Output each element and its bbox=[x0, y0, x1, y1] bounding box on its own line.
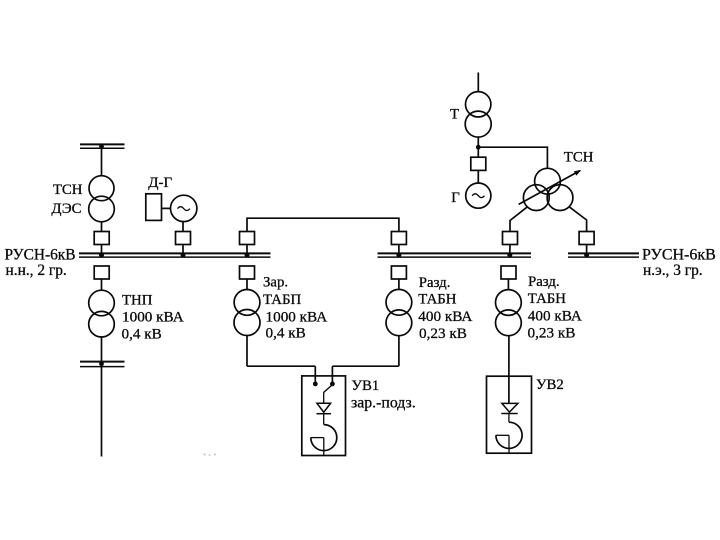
wire: 0.4кВ feeder going down bbox=[101, 366, 103, 456]
svg-text:1000 кВА: 1000 кВА bbox=[266, 308, 328, 325]
svg-text:0,4 кВ: 0,4 кВ bbox=[266, 325, 306, 342]
0.4кВ bus (double line, lower-left) bbox=[80, 362, 125, 367]
svg-text:ТСН: ТСН bbox=[564, 149, 594, 165]
diesel unit Д-Г prime mover (rectangle) bbox=[146, 194, 162, 221]
rectifier machine symbol УВ1 (3/4 circle with radii) bbox=[311, 425, 337, 456]
wire: T to junction bbox=[477, 137, 479, 157]
svg-text:УВ2: УВ2 bbox=[536, 377, 564, 393]
junction dot T/Г/ТСН bbox=[476, 145, 481, 150]
wire: breaker to ТАБН-2 bbox=[507, 279, 509, 290]
generator ~ mark (Г) bbox=[472, 194, 484, 198]
svg-text:ТАБП: ТАБП bbox=[263, 292, 301, 308]
pin dot right bbox=[330, 382, 335, 387]
breaker Q (Разд.ТАБН-2, below bus B) bbox=[501, 266, 516, 279]
breaker Q (Разд.ТАБН-1, below bus B) bbox=[391, 266, 406, 279]
wire: diesel to generator bbox=[162, 207, 171, 209]
generator Д-Г (circle with ~) bbox=[171, 195, 197, 221]
svg-text:Т: Т bbox=[450, 106, 459, 122]
svg-text:Разд.: Разд. bbox=[528, 274, 560, 290]
wire: breaker to bus A bbox=[182, 245, 184, 254]
bus РУСН-6кВ section C (double line) bbox=[568, 253, 639, 257]
generator Г (circle with ~) bbox=[466, 183, 491, 208]
wire: connector УВ1 right pin to ТАБН bbox=[332, 365, 399, 367]
junction dot bus B / ТАБН-1 bbox=[396, 253, 401, 258]
svg-text:0,23 кВ: 0,23 кВ bbox=[419, 325, 467, 342]
junction dot bus A / ТАБП bbox=[245, 253, 250, 258]
wire: ТСН left winding to breaker bbox=[510, 207, 527, 232]
wire: connector ТАБП to УВ1 left pin bbox=[247, 365, 315, 367]
breaker Q (Зар.ТАБП, above bus A) bbox=[240, 232, 255, 245]
generator ~ mark (Д-Г) bbox=[178, 207, 190, 211]
transformer ТСН ДЭС (two windings) bbox=[89, 176, 115, 222]
top HV feeder bus (double line, upper-left) bbox=[80, 144, 125, 148]
transformer ТСН (three windings) bbox=[523, 168, 573, 210]
breaker Q (generator Г) bbox=[471, 157, 486, 170]
svg-text:н.н., 2 гр.: н.н., 2 гр. bbox=[6, 262, 67, 279]
wire: diode to machine symbol bbox=[508, 414, 510, 423]
svg-text:Д-Г: Д-Г bbox=[148, 175, 172, 191]
switch blade УВ1 bbox=[324, 385, 332, 392]
wire: ТАБН down to УВ1 connector bbox=[398, 336, 400, 366]
breaker Q (Д-Г) bbox=[176, 232, 191, 245]
wire: ТНП to 0.4кВ bus bbox=[101, 337, 103, 362]
transformer Разд.ТАБН-1 400 кВА (two windings) bbox=[386, 289, 412, 335]
wire: breaker to bus A bbox=[101, 245, 103, 254]
svg-text:0,4 кВ: 0,4 кВ bbox=[122, 326, 162, 343]
junction dot bus A / ТСН ДЭС bbox=[99, 253, 104, 258]
breaker Q (ТСН right, bus C) bbox=[579, 232, 594, 245]
breaker Q (ТНП feeder, below bus A) bbox=[94, 266, 109, 279]
wire: ring connector between Зар.ТАБП and Разд.ТАБН tops bbox=[247, 218, 399, 231]
svg-text:ДЭС: ДЭС bbox=[51, 201, 81, 217]
wire: breaker to ТНП transformer bbox=[101, 279, 103, 290]
breaker Q (ТСН ДЭС) bbox=[94, 232, 109, 245]
breaker Q (ТСН left, bus B) bbox=[503, 232, 518, 245]
svg-text:Г: Г bbox=[451, 190, 460, 206]
wire: ТСН right winding to breaker bbox=[569, 207, 586, 232]
breaker Q (Разд.ТАБН-1, above bus B) bbox=[391, 232, 406, 245]
transformer Зар.ТАБП 1000 кВА (two windings) bbox=[234, 290, 260, 336]
wire: generator to breaker bbox=[182, 221, 184, 232]
junction dot bus A / Д-Г bbox=[181, 253, 186, 258]
pin dot left bbox=[313, 382, 318, 387]
wire: diode to machine symbol bbox=[323, 414, 325, 425]
diode VD (УВ1) bbox=[317, 403, 332, 414]
rectifier unit УВ2 box bbox=[487, 376, 532, 453]
wire: УВ1 left pin bbox=[314, 366, 316, 382]
svg-text:400 кВА: 400 кВА bbox=[418, 308, 472, 325]
wire: breaker to bus B bbox=[509, 245, 511, 254]
wire: transformer to breaker bbox=[101, 222, 103, 232]
svg-text:зар.-подз.: зар.-подз. bbox=[351, 395, 416, 412]
junction dot bus B / ТСН left bbox=[507, 253, 512, 258]
faint scan smudge bbox=[203, 453, 216, 456]
junction dot on top bus bbox=[99, 144, 104, 149]
wire: breaker to bus A bbox=[246, 245, 248, 254]
svg-text:ТНП: ТНП bbox=[122, 292, 153, 308]
wire: top bus to ТСН/ДЭС transformer bbox=[101, 144, 103, 176]
svg-text:н.э., 3 гр.: н.э., 3 гр. bbox=[643, 262, 703, 279]
svg-text:1000 кВА: 1000 кВА bbox=[122, 308, 184, 325]
wire: breaker to ТАБН-1 transformer bbox=[398, 279, 400, 289]
svg-text:Разд.: Разд. bbox=[419, 275, 451, 291]
wire: ТАБП down to УВ1 connector bbox=[246, 336, 248, 367]
svg-text:0,23 кВ: 0,23 кВ bbox=[528, 324, 576, 341]
svg-text:ТСН: ТСН bbox=[53, 182, 83, 198]
wire: ТАБН-2 to УВ2 diode bbox=[508, 336, 510, 404]
wire: breaker to ТАБП transformer bbox=[246, 279, 248, 290]
svg-text:УВ1: УВ1 bbox=[352, 378, 380, 394]
svg-text:РУСН-6кВ: РУСН-6кВ bbox=[5, 247, 76, 264]
junction dot bus C / ТСН right bbox=[584, 253, 589, 258]
tap-changer arrow through ТСН bbox=[519, 170, 582, 205]
wire: junction to ТСН bbox=[478, 147, 547, 169]
wire: breaker to bus C bbox=[586, 245, 588, 254]
svg-text:ТАБН: ТАБН bbox=[528, 291, 566, 307]
svg-text:400 кВА: 400 кВА bbox=[528, 308, 582, 325]
transformer T (two windings, top right) bbox=[465, 73, 491, 138]
wire: breaker to bus B bbox=[398, 245, 400, 254]
wire: blade to diode bbox=[323, 392, 325, 403]
wire: УВ1 right pin bbox=[331, 366, 333, 382]
svg-text:ТАБН: ТАБН bbox=[418, 292, 456, 308]
transformer Разд.ТАБН-2 400 кВА (two windings) bbox=[496, 290, 522, 336]
breaker Q (Зар.ТАБП, below bus A) bbox=[240, 266, 255, 279]
svg-text:Зар.: Зар. bbox=[263, 274, 288, 290]
junction dot on 0.4кВ bus bbox=[99, 361, 104, 366]
bus РУСН-6кВ section A (double line) bbox=[79, 253, 271, 257]
transformer ТНП 1000 кВА (two windings) bbox=[89, 290, 115, 337]
diode VD (УВ2) bbox=[501, 403, 518, 413]
rectifier unit УВ1 box bbox=[302, 376, 346, 456]
rectifier machine symbol УВ2 (3/4 circle with radii) bbox=[496, 422, 522, 453]
bus РУСН-6кВ section B (double line) bbox=[378, 253, 532, 257]
wire: breaker to Г bbox=[477, 170, 479, 183]
